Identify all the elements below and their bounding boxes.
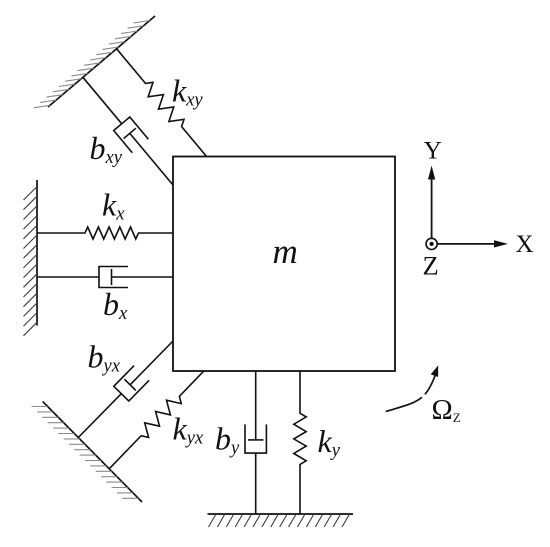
damper b_y (vertical, bottom) <box>255 453 257 514</box>
svg-text:X: X <box>516 231 534 258</box>
spring k_yx (diagonal, bottom-left) <box>109 371 204 469</box>
spring k_xy (diagonal, top-left) <box>117 49 208 157</box>
hatching of left wall <box>24 187 38 336</box>
svg-text:m: m <box>273 232 298 271</box>
damper b_x (horizontal, left) <box>37 276 99 278</box>
hatching of bottom-left wall <box>32 407 139 499</box>
svg-text:Z: Z <box>423 250 439 280</box>
wall: top-left fixed anchor <box>48 16 155 107</box>
damper b_yx (diagonal, bottom-left) <box>78 394 121 438</box>
coordinate axis Y (arrow up) <box>431 178 433 244</box>
wall: bottom-left fixed anchor <box>43 402 142 503</box>
coordinate axis X (arrow right) <box>432 243 495 245</box>
rotation arrow Omega_z (curved arrow) <box>386 375 436 411</box>
hatching of ground <box>209 514 350 527</box>
spring k_x (horizontal, left) <box>37 227 173 239</box>
hatching of top-left wall <box>34 21 150 108</box>
origin symbol: Z axis out of plane (circle with dot) <box>426 238 437 249</box>
wall: left fixed anchor <box>36 180 38 326</box>
spring k_y (vertical, bottom) <box>294 371 306 514</box>
svg-text:Y: Y <box>424 138 442 165</box>
mass block m <box>173 157 395 372</box>
ground: bottom fixed anchor <box>208 513 354 515</box>
damper b_xy (diagonal, top-left) <box>83 77 122 124</box>
